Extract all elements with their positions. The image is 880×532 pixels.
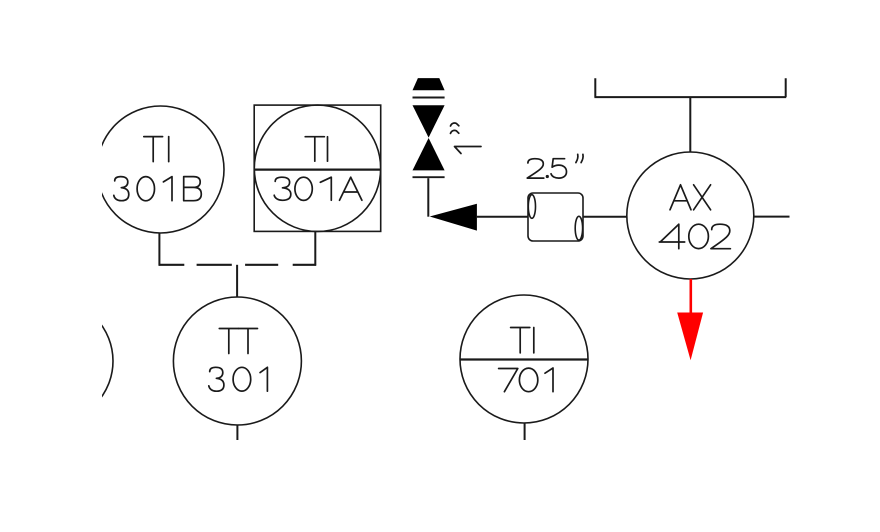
stub line below TI 701 [524,423,526,440]
signal line from TI 301B down [158,233,160,266]
tag text AX 402 [659,185,730,249]
pipe line to coupling [477,216,528,218]
tag text TI 701 [499,328,553,392]
valve body lower triangle (filled) [413,138,445,170]
dashed instrument signal line [159,264,317,266]
divider line of TI 301A [254,169,381,171]
valve lower flange line [413,176,445,178]
valve bonnet line [413,97,445,99]
instrument bubble AX 402 [627,152,754,279]
tag text TI 301B [114,137,202,201]
instrument bubble TT 301 [173,297,301,425]
signal line down to TT 301 [236,265,238,298]
instrument bubble TI 701 [460,295,588,423]
valve body upper triangle (filled) [413,105,445,137]
line from header down to AX 402 [689,97,691,152]
red signal line down from AX 402 [689,279,692,313]
flow arrow (filled, pointing left) [430,204,477,231]
pipe line coupling to AX 402 [583,216,627,218]
pipe coupling / spool body [528,193,583,241]
stub line below TT 301 [236,425,238,440]
signal line from TI 301A square down [314,231,316,265]
size label 2.5 inch [527,154,583,178]
white crop mask at left edge [0,0,102,532]
coupling right weld ellipse [575,216,582,240]
header line at top right [594,78,786,97]
pipe drop from valve [427,178,429,217]
shared-display square of TI 301A [254,105,381,231]
partial instrument bubble at lower-left edge (clipped arc) [0,299,113,423]
stub line right of AX 402 [754,216,790,218]
divider line of TI 701 [460,358,588,360]
valve actuator cap (filled trapezoid) [413,78,445,90]
red arrow (filled, pointing down) [677,313,703,361]
tag text TI 301A [274,137,362,201]
instrument bubble TI 301A (inscribed circle) [254,105,380,231]
coupling left weld ellipse [528,195,535,219]
size label 1 inch (rotated) [451,123,482,153]
instrument bubble TI 301B (circle, left sliver clipped) [97,106,224,233]
tag text TT 301 [209,329,268,392]
